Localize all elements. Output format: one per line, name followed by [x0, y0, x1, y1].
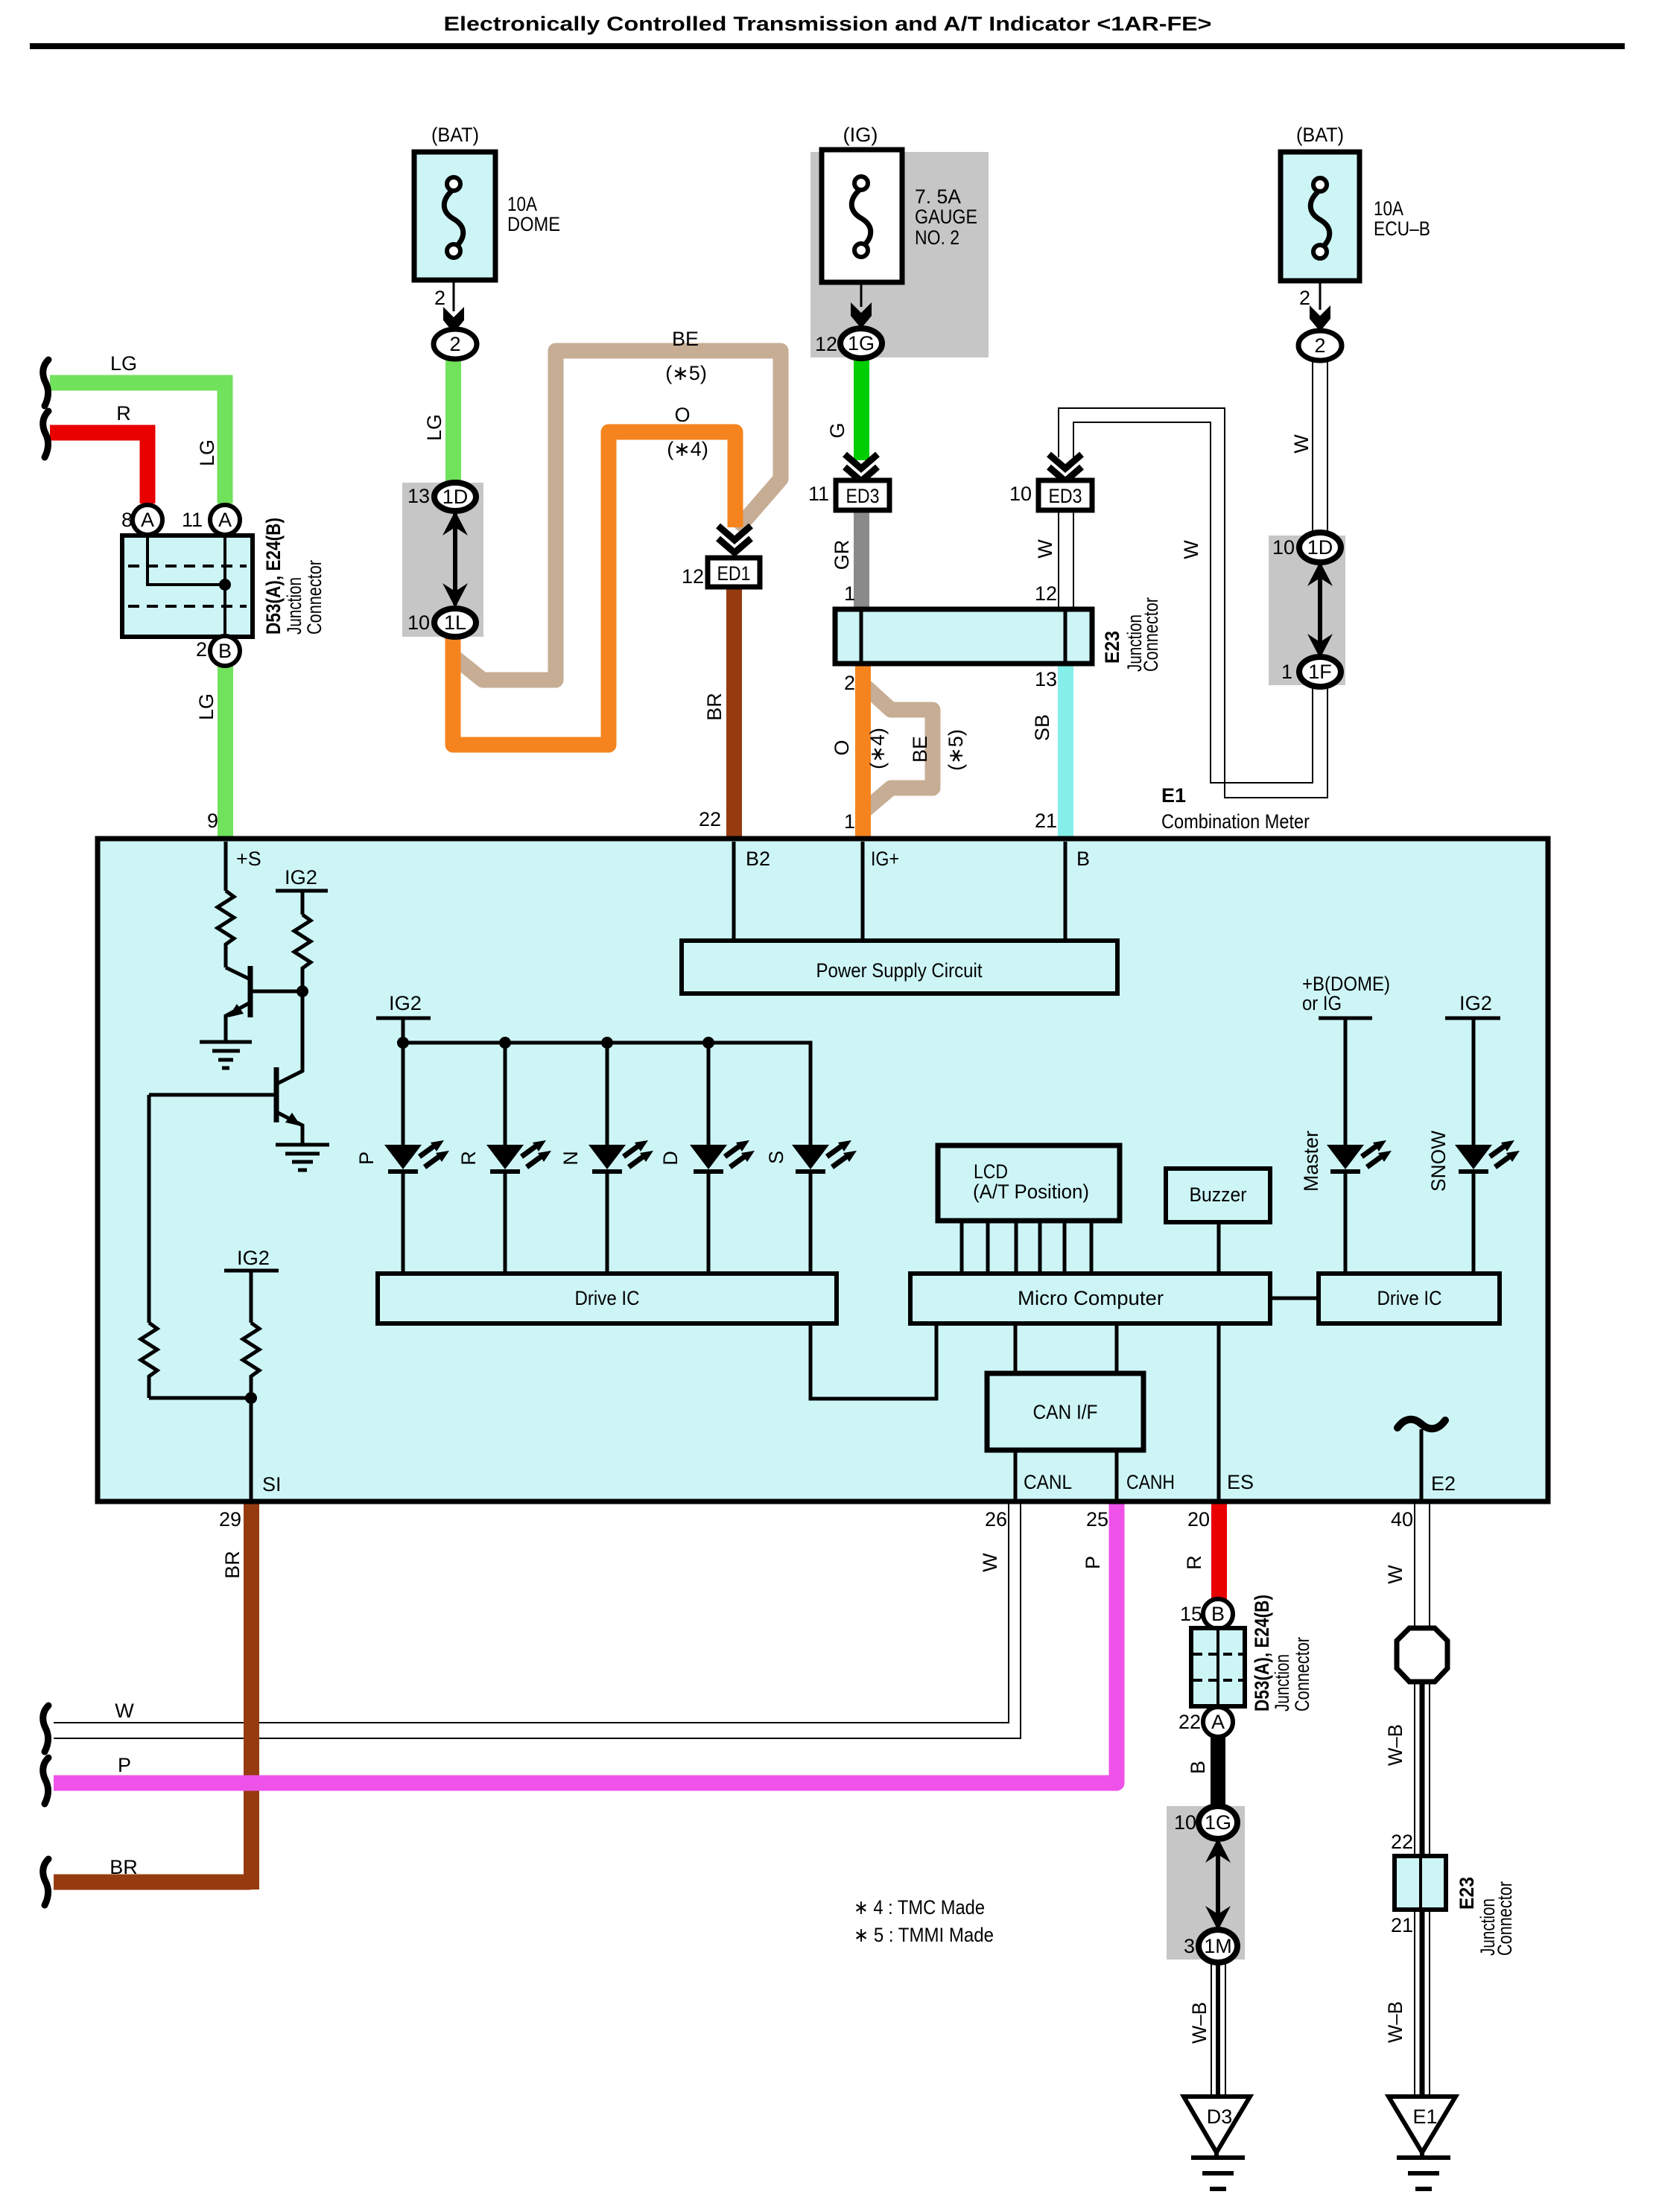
IG2 rail right: [1445, 1018, 1500, 1145]
svg-text:A: A: [218, 509, 232, 531]
svg-text:2: 2: [434, 287, 445, 309]
svg-text:22: 22: [1178, 1711, 1201, 1733]
svg-text:CAN I/F: CAN I/F: [1033, 1401, 1098, 1423]
micro computer box: [910, 1274, 1270, 1323]
svg-text:D3: D3: [1207, 2105, 1233, 2128]
gray background behind GAUGE fuse: [810, 152, 989, 357]
svg-text:(IG): (IG): [843, 124, 878, 146]
wire R from break to junction A: [50, 433, 147, 503]
svg-text:Junction: Junction: [1271, 1654, 1293, 1712]
svg-text:2: 2: [1314, 334, 1325, 357]
wire O E23 to meter IG+: [855, 662, 871, 839]
svg-text:W–B: W–B: [1384, 1724, 1406, 1766]
wire BE (TMMI) lower loop: [866, 687, 933, 810]
svg-text:W: W: [1290, 434, 1313, 454]
svg-text:(∗5): (∗5): [665, 362, 707, 384]
svg-text:2: 2: [196, 638, 207, 661]
svg-text:12: 12: [682, 565, 704, 588]
svg-text:SI: SI: [262, 1473, 282, 1496]
wire W meter E2 pin 40 to noise filter: [1415, 1501, 1430, 1628]
connector oval 1G (GAUGE): [840, 328, 882, 358]
wire LG from break to junction A: [50, 383, 225, 503]
connector oval 2 (ECU-B): [1298, 331, 1342, 360]
connector box ED1 (12): [708, 558, 760, 587]
svg-text:W–B: W–B: [1384, 2001, 1406, 2043]
drive IC box right: [1319, 1274, 1500, 1323]
wire BR meter SI pin 29 down: [244, 1501, 259, 1890]
wire W loop ED3-10 to combination meter (inner line): [1073, 422, 1313, 783]
svg-text:21: 21: [1391, 1914, 1413, 1936]
svg-text:IG2: IG2: [237, 1247, 270, 1269]
svg-text:DOME: DOME: [507, 213, 560, 235]
gray background behind 1G/1M junction: [1167, 1806, 1245, 1960]
LCD box: [938, 1145, 1120, 1221]
svg-text:GR: GR: [831, 540, 853, 571]
+B(DOME) rail: [1319, 1018, 1372, 1145]
svg-text:Connector: Connector: [303, 560, 326, 635]
svg-text:BR: BR: [221, 1551, 244, 1579]
wire P CANH pin 25 down and left to break: [54, 1501, 1117, 1783]
wire LG fuse DOME to 1D: [445, 357, 461, 484]
svg-text:LCD: LCD: [974, 1160, 1008, 1183]
svg-text:ECU–B: ECU–B: [1374, 217, 1430, 240]
svg-text:CANH: CANH: [1126, 1471, 1175, 1493]
svg-text:ED1: ED1: [717, 562, 751, 585]
svg-text:O: O: [674, 404, 690, 426]
break squiggle LG: [43, 360, 48, 406]
junction connector D53(A),E24(B) top: [122, 535, 253, 637]
svg-text:10: 10: [1009, 483, 1032, 505]
buzzer pin: [1217, 1222, 1221, 1274]
svg-text:10: 10: [1174, 1811, 1196, 1834]
svg-text:15: 15: [1180, 1603, 1202, 1625]
svg-text:Drive IC: Drive IC: [575, 1287, 640, 1309]
ground (Q2 emitter): [276, 1145, 329, 1170]
gray background behind 1D/1F junction: [1269, 535, 1345, 685]
links micro to CAN I/F: [1015, 1323, 1117, 1373]
svg-text:BR: BR: [703, 693, 726, 721]
break squiggle P bottom: [43, 1758, 48, 1804]
wire W-B 1M to ground D3: [1211, 1962, 1225, 2097]
connector box ED3 (10): [1038, 480, 1092, 510]
svg-text:ED3: ED3: [846, 485, 880, 507]
svg-text:2: 2: [1299, 287, 1310, 309]
break squiggle W bottom: [43, 1706, 48, 1752]
fuse 7.5A GAUGE NO.2: [822, 150, 902, 328]
pin line ES: [1217, 1323, 1221, 1501]
svg-text:A: A: [141, 509, 154, 531]
svg-text:B: B: [1211, 1603, 1225, 1625]
svg-text:9: 9: [207, 810, 218, 832]
svg-text:P: P: [118, 1754, 131, 1776]
resistor on +S line: [218, 891, 234, 967]
svg-text:10: 10: [407, 611, 430, 634]
pin stub +S: [224, 842, 228, 891]
svg-text:CANL: CANL: [1024, 1471, 1072, 1493]
svg-text:1D: 1D: [442, 486, 469, 508]
wire GR below ED3 to E23: [854, 510, 869, 609]
svg-text:8: 8: [121, 509, 133, 531]
resistor on base line: [141, 1323, 157, 1398]
junction connector D53(A),E24(B) bottom: [1191, 1628, 1245, 1706]
svg-text:2: 2: [449, 333, 460, 355]
wire BR horizontal to break: [54, 1875, 251, 1890]
transistor Q2: [277, 991, 302, 1084]
svg-text:R: R: [116, 402, 131, 425]
svg-text:26: 26: [985, 1508, 1007, 1531]
wire BE (TMMI) upper loop: [456, 351, 781, 680]
pin circle B (15): [1203, 1599, 1233, 1629]
noise filter octagon: [1397, 1628, 1447, 1682]
connector oval 1F (1): [1299, 657, 1341, 687]
link micro computer to right drive IC: [1270, 1297, 1319, 1300]
pin stub IG+: [861, 842, 865, 941]
connector oval 1D (13): [434, 483, 476, 511]
svg-text:B: B: [1076, 848, 1090, 870]
svg-text:W–B: W–B: [1188, 2002, 1211, 2044]
svg-text:E1: E1: [1161, 784, 1186, 807]
svg-text:BE: BE: [672, 328, 699, 350]
wire W loop ED3-10 to combination meter (outer line): [1059, 408, 1327, 798]
svg-text:10: 10: [1272, 536, 1295, 559]
connector oval 2 (DOME): [434, 329, 477, 359]
svg-text:IG2: IG2: [389, 992, 422, 1014]
svg-text:LG: LG: [195, 693, 218, 720]
wire O (TMC) upper loop: [453, 432, 735, 745]
svg-text:P: P: [1082, 1556, 1104, 1569]
fuse 10A DOME: [414, 152, 495, 333]
svg-text:25: 25: [1086, 1508, 1108, 1531]
svg-text:Junction: Junction: [283, 577, 305, 635]
svg-text:IG+: IG+: [871, 848, 899, 870]
pin circle A (8): [133, 505, 162, 535]
wire W-B E23 to ground E1: [1415, 1910, 1430, 2097]
svg-text:SB: SB: [1031, 714, 1053, 741]
IG2 rail above SI: [224, 1271, 279, 1323]
svg-text:B2: B2: [746, 848, 770, 870]
connector oval 1L (10): [434, 608, 476, 637]
svg-text:(BAT): (BAT): [431, 124, 479, 146]
pin stub SI: [250, 1398, 253, 1501]
pin lines CANL CANH: [1015, 1450, 1117, 1501]
svg-text:S: S: [765, 1151, 787, 1164]
svg-text:E23: E23: [1101, 631, 1123, 664]
LED S: [792, 1140, 857, 1274]
svg-text:Master: Master: [1300, 1131, 1322, 1192]
svg-text:E23: E23: [1456, 1877, 1478, 1910]
wire W ED3-10 to E23 pin 12: [1059, 510, 1073, 609]
ground D3: [1184, 2097, 1250, 2189]
connector box ED3 (11): [836, 480, 889, 510]
svg-text:1L: 1L: [444, 611, 466, 634]
svg-text:11: 11: [182, 509, 203, 531]
connector oval 1M (3): [1199, 1930, 1237, 1962]
svg-text:Drive IC: Drive IC: [1377, 1287, 1442, 1309]
buzzer box: [1166, 1169, 1270, 1222]
svg-text:10A: 10A: [507, 193, 537, 215]
junction connector E23: [835, 609, 1092, 664]
svg-text:GAUGE: GAUGE: [915, 206, 977, 228]
break squiggle BR bottom: [43, 1859, 48, 1905]
ground E1: [1389, 2097, 1456, 2189]
svg-text:IG2: IG2: [1459, 992, 1492, 1014]
LED N: [589, 1140, 653, 1274]
svg-text:Buzzer: Buzzer: [1190, 1183, 1247, 1206]
svg-text:Connector: Connector: [1140, 597, 1162, 672]
svg-text:R: R: [457, 1151, 480, 1166]
pin line E2 with break squiggle: [1420, 1429, 1424, 1501]
svg-text:∗ 5 : TMMI Made: ∗ 5 : TMMI Made: [854, 1924, 994, 1946]
svg-text:BE: BE: [909, 736, 931, 763]
svg-text:1: 1: [1281, 661, 1292, 683]
svg-text:BR: BR: [110, 1856, 138, 1878]
svg-text:E1: E1: [1412, 2105, 1437, 2128]
pin stub B: [1064, 842, 1067, 941]
junction dot SI: [245, 1392, 257, 1404]
svg-text:W: W: [1034, 539, 1056, 559]
title rule: [30, 43, 1625, 49]
break squiggle R: [43, 411, 48, 457]
svg-text:O: O: [831, 740, 853, 755]
pin stub B2: [732, 842, 736, 941]
wire W-B noise filter to E23: [1415, 1682, 1430, 1856]
svg-text:2: 2: [844, 672, 855, 694]
chevron into ED1: [718, 526, 751, 553]
pin circle B (2): [210, 636, 240, 666]
svg-text:Connector: Connector: [1494, 1881, 1516, 1956]
junction 1D/1L double arrow: [453, 514, 457, 605]
svg-text:B: B: [1187, 1761, 1209, 1774]
svg-text:Micro Computer: Micro Computer: [1018, 1287, 1164, 1309]
IG2 rail for indicator LEDs: [376, 1018, 431, 1043]
svg-text:B: B: [218, 640, 232, 662]
svg-text:LG: LG: [110, 352, 137, 375]
wire W fuse ECU-B to 1D: [1313, 359, 1327, 534]
gray background behind 1D/1L junction: [402, 483, 483, 637]
drive IC box left: [378, 1274, 837, 1323]
svg-text:(∗5): (∗5): [945, 729, 967, 771]
wire Q2 base to SI resistor: [147, 1095, 151, 1323]
fuse 10A ECU-B: [1281, 152, 1360, 331]
IG2 rail top-left: [276, 891, 328, 915]
power supply circuit box: [682, 941, 1117, 994]
svg-text:1F: 1F: [1308, 661, 1332, 683]
svg-text:∗ 4 : TMC Made: ∗ 4 : TMC Made: [854, 1896, 985, 1919]
svg-text:SNOW: SNOW: [1427, 1131, 1450, 1192]
connector oval 1D (10): [1299, 533, 1341, 562]
combination meter box E1: [98, 839, 1548, 1501]
svg-text:D53(A), E24(B): D53(A), E24(B): [262, 518, 285, 635]
pin circle A (22): [1203, 1707, 1233, 1737]
svg-text:1D: 1D: [1307, 536, 1333, 559]
wire W meter CANL pin 26 down-left to break: [54, 1501, 1021, 1738]
svg-text:7. 5A: 7. 5A: [915, 185, 961, 208]
svg-text:(∗4): (∗4): [667, 438, 708, 460]
LED Master: [1327, 1140, 1392, 1274]
resistor on IG2 line: [294, 915, 311, 991]
svg-text:1G: 1G: [1205, 1811, 1231, 1834]
svg-text:1M: 1M: [1204, 1935, 1232, 1957]
chevron into ED3 (11): [845, 454, 878, 481]
wire B junction A to 1G: [1211, 1735, 1225, 1808]
junction connector E23 small: [1395, 1856, 1446, 1910]
svg-text:N: N: [559, 1151, 582, 1166]
svg-text:13: 13: [407, 485, 430, 507]
ground (Q1 emitter): [200, 1042, 252, 1068]
junction dot Q1 base: [296, 985, 308, 997]
svg-text:(∗4): (∗4): [866, 728, 889, 769]
svg-text:3: 3: [1184, 1935, 1195, 1957]
svg-text:20: 20: [1187, 1508, 1210, 1531]
svg-text:+S: +S: [236, 848, 261, 870]
junction 1G/1M double arrow: [1216, 1841, 1220, 1927]
LED D: [690, 1140, 755, 1274]
svg-text:LG: LG: [423, 414, 445, 441]
svg-text:NO. 2: NO. 2: [915, 226, 959, 249]
svg-text:D53(A), E24(B): D53(A), E24(B): [1251, 1595, 1273, 1712]
svg-text:21: 21: [1035, 810, 1057, 832]
svg-text:R: R: [1183, 1555, 1205, 1570]
svg-text:A: A: [1211, 1711, 1225, 1733]
svg-text:W: W: [1384, 1565, 1406, 1584]
svg-text:22: 22: [1391, 1831, 1413, 1853]
svg-text:ED3: ED3: [1049, 485, 1082, 507]
CAN I/F box: [987, 1373, 1143, 1450]
wire BR below ED1 to meter B2: [726, 585, 742, 839]
svg-text:W: W: [115, 1700, 134, 1722]
svg-text:(A/T Position): (A/T Position): [973, 1180, 1089, 1203]
svg-text:(BAT): (BAT): [1296, 124, 1344, 146]
connector oval 1G (10): [1199, 1806, 1237, 1839]
svg-text:P: P: [355, 1151, 378, 1165]
svg-text:Combination Meter: Combination Meter: [1161, 810, 1310, 833]
svg-text:10A: 10A: [1374, 197, 1403, 220]
svg-text:ES: ES: [1227, 1471, 1254, 1493]
svg-text:D: D: [659, 1151, 682, 1166]
LED R: [486, 1140, 551, 1274]
svg-text:1G: 1G: [848, 332, 875, 355]
svg-text:W: W: [1180, 540, 1202, 559]
transistor Q1: [226, 967, 250, 979]
svg-text:1: 1: [844, 582, 855, 605]
pin circle A (11): [210, 505, 240, 535]
svg-text:G: G: [826, 422, 848, 438]
svg-text:12: 12: [1035, 582, 1057, 605]
wire resistor to SI junction: [149, 1396, 251, 1400]
svg-text:Electronically Controlled Tran: Electronically Controlled Transmission a…: [444, 13, 1212, 35]
svg-text:E2: E2: [1431, 1472, 1456, 1495]
svg-text:12: 12: [815, 333, 837, 355]
wire G fuse GAUGE to ED3: [854, 356, 869, 460]
chevron into ED3 (10): [1049, 454, 1082, 481]
svg-text:Connector: Connector: [1291, 1637, 1313, 1712]
wire R meter ES pin 20 to junction B: [1211, 1501, 1227, 1601]
svg-text:29: 29: [219, 1508, 241, 1531]
svg-text:LG: LG: [196, 439, 218, 466]
LED supply bus: [403, 1043, 810, 1145]
LED SNOW: [1455, 1140, 1520, 1274]
svg-text:W: W: [979, 1553, 1001, 1572]
svg-text:1: 1: [844, 810, 855, 833]
LED P: [384, 1140, 449, 1274]
link drive IC to micro computer: [810, 1323, 936, 1399]
svg-text:or IG: or IG: [1302, 992, 1342, 1014]
svg-text:11: 11: [808, 483, 829, 505]
svg-text:40: 40: [1391, 1508, 1413, 1531]
svg-text:Power Supply Circuit: Power Supply Circuit: [816, 959, 983, 982]
svg-text:13: 13: [1035, 668, 1057, 690]
wire LG below junction B to meter +S: [218, 664, 233, 840]
svg-text:22: 22: [699, 808, 721, 830]
svg-text:IG2: IG2: [285, 866, 317, 889]
LCD pins: [962, 1221, 1091, 1274]
junction 1D/1F double arrow: [1318, 565, 1322, 655]
wire SB E23 to meter B: [1058, 662, 1073, 839]
resistor on SI IG2 line: [243, 1323, 259, 1398]
